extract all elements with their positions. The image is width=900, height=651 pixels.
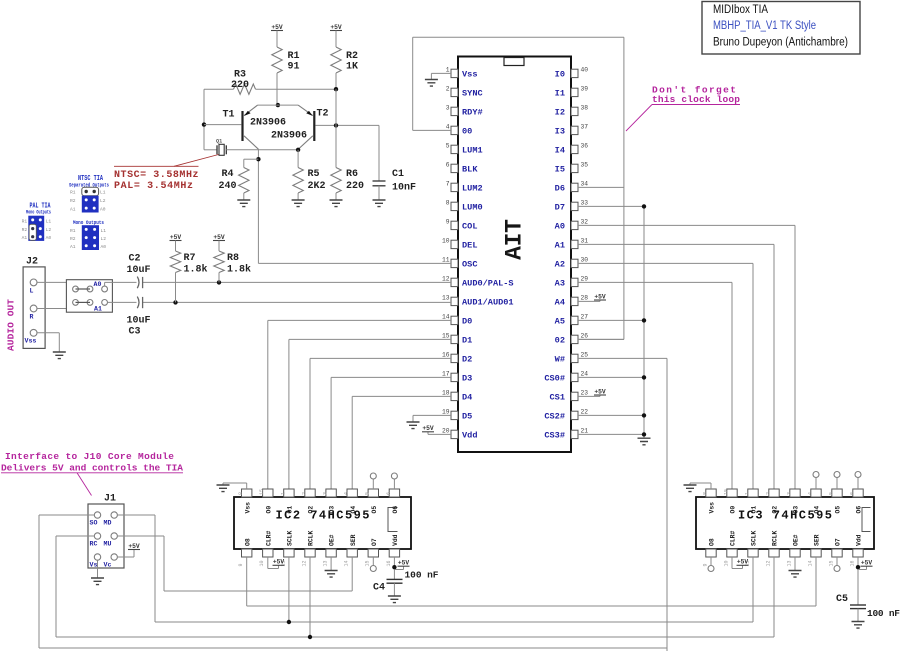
resistor R3 <box>234 84 256 94</box>
svg-text:10: 10 <box>442 238 450 245</box>
svg-text:1.8k: 1.8k <box>184 264 208 276</box>
node IC2 Vdd <box>392 565 396 569</box>
svg-text:A1: A1 <box>70 244 76 250</box>
svg-text:2N3906: 2N3906 <box>271 131 307 142</box>
wire T1 collector down <box>257 149 259 263</box>
wire IC2 SCLK <box>288 557 290 622</box>
svg-text:J1: J1 <box>104 494 116 505</box>
svg-text:O1: O1 <box>751 506 758 514</box>
svg-text:24: 24 <box>581 371 589 378</box>
svg-text:D2: D2 <box>462 355 472 365</box>
svg-text:L2: L2 <box>46 227 52 233</box>
svg-text:9: 9 <box>238 563 244 566</box>
IC3 O6 open <box>857 478 859 490</box>
resistor R6 <box>331 168 341 194</box>
node R7 on AUD1 <box>173 300 177 304</box>
TIA pin 13 AUD1/AUD01 <box>451 297 458 305</box>
TIA pin 30 A2 <box>571 259 578 267</box>
node shared emitters <box>276 103 280 107</box>
wire J1 Vs ground <box>97 560 99 577</box>
connector J1 <box>88 504 124 568</box>
node CS2# gnd <box>642 413 646 417</box>
svg-text:MD: MD <box>104 520 112 527</box>
svg-text:SO: SO <box>90 520 98 527</box>
wire IC2 RCLK <box>309 557 311 637</box>
svg-text:R6: R6 <box>346 169 358 180</box>
wire A5 pin27 <box>578 319 644 321</box>
IC3 pin 13 OE# <box>790 549 800 557</box>
TIA pin 8 LUM0 <box>451 202 458 210</box>
resistor R5 <box>297 150 299 168</box>
resistor R1 <box>272 47 282 73</box>
TIA pin 39 I1 <box>571 88 578 96</box>
svg-text:4: 4 <box>446 124 450 131</box>
IC2 pin 15 O7 <box>368 549 378 557</box>
svg-text:SER: SER <box>814 534 821 546</box>
svg-text:D3: D3 <box>462 374 472 384</box>
svg-text:10: 10 <box>259 560 265 566</box>
TIA pin 16 D2 <box>451 354 458 362</box>
TIA pin 7 LUM2 <box>451 183 458 191</box>
wire pin1 Vss to ground <box>431 72 451 74</box>
wire J1 RC latch <box>56 535 94 537</box>
ground R5 <box>297 193 299 200</box>
TIA pin 22 CS2# <box>571 411 578 419</box>
IC3 pin 15 O0 <box>727 489 737 497</box>
svg-text:D0: D0 <box>462 317 472 327</box>
svg-text:Delivers 5V and controls the T: Delivers 5V and controls the TIA <box>1 463 183 474</box>
svg-text:2: 2 <box>765 492 771 495</box>
svg-text:CLR#: CLR# <box>730 530 737 546</box>
svg-text:Vss: Vss <box>244 502 251 514</box>
svg-text:CS0#: CS0# <box>544 374 565 384</box>
svg-text:A1: A1 <box>22 235 28 241</box>
IC3 74HC595 body <box>696 497 874 549</box>
wire R3 to R2 node <box>256 88 337 90</box>
node IC3 Vdd <box>856 565 860 569</box>
IC2 pin 15 O0 <box>263 489 273 497</box>
wire CS2# pin22 <box>578 414 644 416</box>
svg-text:CS3#: CS3# <box>544 431 565 441</box>
svg-text:13: 13 <box>786 560 792 566</box>
TIA pin 25 W# <box>571 354 578 362</box>
IC2 O5 open <box>372 479 374 489</box>
svg-text:O5: O5 <box>371 506 378 514</box>
svg-text:8: 8 <box>238 492 244 495</box>
svg-text:C4: C4 <box>373 583 385 594</box>
svg-text:D7: D7 <box>555 203 565 213</box>
svg-text:T2: T2 <box>317 109 329 120</box>
svg-text:17: 17 <box>442 371 450 378</box>
svg-text:10uF: 10uF <box>127 316 151 327</box>
svg-text:10: 10 <box>723 560 729 566</box>
svg-text:+5V: +5V <box>213 234 225 241</box>
svg-text:1: 1 <box>744 492 750 495</box>
svg-text:2K2: 2K2 <box>308 181 326 192</box>
TIA chip U1 body <box>458 57 571 453</box>
svg-text:O6: O6 <box>856 506 863 514</box>
svg-text:L: L <box>30 288 34 295</box>
wire J1 MU to IC2 SER <box>117 535 164 537</box>
ground C4 <box>393 583 395 595</box>
svg-text:6: 6 <box>446 162 450 169</box>
svg-text:10nF: 10nF <box>392 183 416 194</box>
wire D2 pin16 <box>310 357 451 359</box>
svg-text:13: 13 <box>323 560 329 566</box>
svg-text:CS1: CS1 <box>550 393 565 403</box>
jumper PAL mono <box>28 216 44 241</box>
wire R4 branch <box>244 158 259 160</box>
svg-text:A5: A5 <box>555 317 565 327</box>
IC3 pin 1 O1 <box>748 489 758 497</box>
svg-text:+5V: +5V <box>330 24 342 31</box>
svg-text:Bruno Dupeyon (Antichambre): Bruno Dupeyon (Antichambre) <box>713 37 848 49</box>
svg-text:MBHP_TIA_V1 TK Style: MBHP_TIA_V1 TK Style <box>713 20 816 32</box>
svg-text:18: 18 <box>442 390 450 397</box>
audio jumper block <box>66 280 112 313</box>
wire IC2 O8 cascade to IC3 SER <box>246 557 248 606</box>
IC2 O7 open <box>372 557 374 566</box>
svg-text:O2: O2 <box>308 506 315 514</box>
node IC2 SCLK <box>287 620 291 624</box>
svg-text:3: 3 <box>786 492 792 495</box>
ground C5 <box>857 609 859 621</box>
svg-text:R2: R2 <box>346 51 358 62</box>
svg-text:5: 5 <box>446 143 450 150</box>
svg-text:T1: T1 <box>223 110 235 121</box>
svg-text:6: 6 <box>849 492 855 495</box>
TIA pin 19 D5 <box>451 411 458 419</box>
svg-text:11: 11 <box>442 257 450 264</box>
TIA pin 27 A5 <box>571 316 578 324</box>
svg-text:RDY#: RDY# <box>462 108 483 118</box>
capacitor C4 <box>387 578 403 580</box>
TIA pin 6 BLK <box>451 164 458 172</box>
IC3 O8 open <box>710 557 712 566</box>
TIA pin 36 I4 <box>571 145 578 153</box>
IC3 pin 2 O2 <box>769 489 779 497</box>
svg-text:OE#: OE# <box>329 534 336 546</box>
TIA pin 21 CS3# <box>571 430 578 438</box>
svg-text:25: 25 <box>581 352 589 359</box>
IC3 pin 10 CLR# <box>727 549 737 557</box>
wire AUD1 pin13 <box>143 301 451 303</box>
TIA pin 4 00 <box>451 126 458 134</box>
svg-text:NTSC= 3.58MHz: NTSC= 3.58MHz <box>114 170 199 181</box>
wire T1 base <box>204 124 241 126</box>
wire clock loop pin4 <box>413 129 451 131</box>
svg-text:C1: C1 <box>392 169 404 180</box>
IC3 pin 15 O7 <box>832 549 842 557</box>
svg-text:240: 240 <box>219 181 237 192</box>
svg-text:27: 27 <box>581 314 589 321</box>
IC3 pin 12 RCLK <box>769 549 779 557</box>
wire IC3 Vdd to C5 <box>857 557 859 605</box>
svg-text:12: 12 <box>442 276 450 283</box>
svg-text:2: 2 <box>446 86 450 93</box>
svg-text:22: 22 <box>581 409 589 416</box>
svg-text:2N3906: 2N3906 <box>250 118 286 129</box>
TIA pin 31 A1 <box>571 240 578 248</box>
svg-text:C2: C2 <box>129 254 141 265</box>
svg-text:16: 16 <box>386 560 392 566</box>
IC3 Vdd +5V <box>858 569 867 571</box>
IC2 pin 14 SER <box>347 549 357 557</box>
IC2 pin 10 CLR# <box>263 549 273 557</box>
wire D0 pin14 <box>268 319 451 321</box>
svg-text:35: 35 <box>581 162 589 169</box>
wire R2 lead <box>335 73 337 89</box>
wire J2 Vss to ground <box>37 332 59 334</box>
svg-text:O7: O7 <box>835 538 842 546</box>
wire J1 MD shift clock <box>117 514 155 516</box>
svg-text:L2: L2 <box>100 198 106 204</box>
ground CS bus <box>638 438 651 445</box>
svg-text:23: 23 <box>581 390 589 397</box>
wire A3 pin29 <box>578 281 732 283</box>
capacitor C2 <box>137 277 139 289</box>
wire A0 pin32 <box>578 224 795 226</box>
wire D1 pin15 <box>289 338 451 340</box>
svg-text:R4: R4 <box>222 169 234 180</box>
IC2 pin 8 Vss <box>242 489 252 497</box>
IC3 pin 3 O3 <box>790 489 800 497</box>
svg-text:33: 33 <box>581 200 589 207</box>
svg-text:A2: A2 <box>555 260 565 270</box>
svg-text:+5V: +5V <box>398 560 410 567</box>
IC2 O6 open <box>393 479 395 489</box>
TIA pin 35 I5 <box>571 164 578 172</box>
svg-text:SYNC: SYNC <box>462 89 483 99</box>
svg-text:Vs: Vs <box>90 562 98 569</box>
svg-text:R1: R1 <box>288 51 300 62</box>
svg-text:this clock loop: this clock loop <box>652 94 740 105</box>
svg-text:A1: A1 <box>555 241 565 251</box>
wire block to C2 <box>105 281 137 283</box>
svg-text:31: 31 <box>581 238 589 245</box>
svg-text:O6: O6 <box>392 506 399 514</box>
svg-text:14: 14 <box>344 560 350 566</box>
IC3 pin 14 SER <box>811 549 821 557</box>
wire R2 node to R6 <box>335 89 337 167</box>
svg-text:R: R <box>30 314 34 321</box>
TIA pin 18 D4 <box>451 392 458 400</box>
svg-text:Q1: Q1 <box>216 139 222 145</box>
TIA pin 38 I2 <box>571 107 578 115</box>
svg-text:O4: O4 <box>814 506 821 514</box>
wire R1 to emitters <box>276 73 278 105</box>
ground pin1 <box>425 80 438 87</box>
svg-text:1: 1 <box>280 492 286 495</box>
svg-text:I5: I5 <box>555 165 565 175</box>
capacitor C1 <box>378 125 380 181</box>
wire CS3# pin21 <box>578 433 644 435</box>
svg-text:D6: D6 <box>555 184 565 194</box>
svg-text:O8: O8 <box>709 538 716 546</box>
jumper NTSC separated <box>82 187 99 195</box>
svg-text:+5V: +5V <box>737 559 749 566</box>
node D7 gnd <box>642 204 646 208</box>
svg-text:5: 5 <box>828 492 834 495</box>
wire left feedback vertical <box>203 89 205 150</box>
node R4 tap <box>256 157 260 161</box>
svg-text:D4: D4 <box>462 393 472 403</box>
wire block to C3 <box>108 301 137 303</box>
svg-text:100 nF: 100 nF <box>867 608 900 619</box>
svg-text:15: 15 <box>365 560 371 566</box>
svg-text:4: 4 <box>344 492 350 495</box>
IC2 pin 2 O2 <box>305 489 315 497</box>
svg-text:O3: O3 <box>329 506 336 514</box>
svg-text:15: 15 <box>723 489 729 495</box>
svg-text:+5V: +5V <box>273 559 285 566</box>
svg-text:40: 40 <box>581 67 589 74</box>
svg-text:D1: D1 <box>462 336 472 346</box>
svg-text:8: 8 <box>446 200 450 207</box>
svg-text:3: 3 <box>446 105 450 112</box>
TIA chip notch <box>504 58 524 66</box>
ground R6 <box>335 193 337 200</box>
svg-text:32: 32 <box>581 219 589 226</box>
title block <box>702 2 860 55</box>
IC2 pin 9 O8 <box>242 549 252 557</box>
wire D4 pin18 <box>352 395 451 397</box>
wire IC2 Vss ground <box>246 483 248 489</box>
svg-text:O0: O0 <box>730 506 737 514</box>
IC3 O5 open <box>836 478 838 490</box>
TIA pin 2 SYNC <box>451 88 458 96</box>
wire J1 Vc +5V <box>117 556 134 558</box>
svg-text:Vss: Vss <box>462 70 477 80</box>
svg-text:RCLK: RCLK <box>772 530 779 546</box>
svg-text:+5V: +5V <box>170 234 182 241</box>
IC2 pin 3 O3 <box>326 489 336 497</box>
IC3 CLR# +5V <box>731 557 733 569</box>
svg-text:PAL= 3.54MHz: PAL= 3.54MHz <box>114 181 193 192</box>
svg-text:A: A <box>502 246 528 260</box>
svg-text:R7: R7 <box>184 253 196 264</box>
wire D3 pin17 <box>331 376 451 378</box>
resistor R8 <box>214 251 224 273</box>
wire IC3 RCLK <box>773 557 775 637</box>
TIA pin 3 RDY# <box>451 107 458 115</box>
svg-text:D5: D5 <box>462 412 472 422</box>
TIA pin 9 COL <box>451 221 458 229</box>
wire D5 pin19 to ground <box>413 414 451 416</box>
svg-text:I3: I3 <box>555 127 565 137</box>
svg-text:28: 28 <box>581 295 589 302</box>
node R2-R3 <box>334 87 338 91</box>
svg-text:A1: A1 <box>70 207 76 213</box>
wire W# pin25 <box>578 357 667 359</box>
wire IC2 SER <box>351 557 353 591</box>
node T1 base <box>202 122 206 126</box>
node A5 gnd <box>642 318 646 322</box>
wire R8 to AUD0 <box>218 273 220 283</box>
TIA pin 5 LUM1 <box>451 145 458 153</box>
svg-text:COL: COL <box>462 222 477 232</box>
svg-text:1K: 1K <box>346 62 358 73</box>
svg-text:+5V: +5V <box>128 543 140 550</box>
svg-text:O5: O5 <box>835 506 842 514</box>
svg-text:26: 26 <box>581 333 589 340</box>
svg-text:AUD1/AUD01: AUD1/AUD01 <box>462 298 514 308</box>
svg-text:02: 02 <box>555 336 565 346</box>
wire Vdd pin20 +5V <box>428 433 451 435</box>
wire A4 pin28 +5V <box>578 300 600 302</box>
ground J2 <box>53 352 66 359</box>
svg-text:A0: A0 <box>46 235 52 241</box>
svg-text:7: 7 <box>446 181 450 188</box>
wire A2 pin30 <box>578 262 753 264</box>
TIA pin 37 I3 <box>571 126 578 134</box>
svg-text:Mono Outputs: Mono Outputs <box>73 219 104 226</box>
IC2 pin 1 O1 <box>284 489 294 497</box>
crystal Q1 <box>204 149 217 151</box>
TIA pin 33 D7 <box>571 202 578 210</box>
svg-text:AUD0/PAL-S: AUD0/PAL-S <box>462 279 514 289</box>
TIA pin 14 D0 <box>451 316 458 324</box>
svg-text:MIDIbox TIA: MIDIbox TIA <box>713 4 768 16</box>
svg-text:I0: I0 <box>555 70 565 80</box>
wire OSC pin11 <box>258 262 451 264</box>
ground pin19 <box>407 422 420 429</box>
IC2 pin 4 O4 <box>347 489 357 497</box>
IC2 pin 13 OE# <box>326 549 336 557</box>
svg-text:12: 12 <box>765 560 771 566</box>
ground R4 <box>243 193 245 200</box>
svg-text:LUM1: LUM1 <box>462 146 483 156</box>
resistor R2 <box>331 47 341 73</box>
resistor R4 <box>239 168 249 194</box>
resistor R7 <box>170 251 180 273</box>
svg-text:R2: R2 <box>22 227 28 233</box>
svg-text:W#: W# <box>555 355 565 365</box>
svg-text:A0: A0 <box>94 281 102 288</box>
wire J2 L <box>37 281 77 283</box>
TIA pin 12 AUD0/PAL-S <box>451 278 458 286</box>
svg-text:15: 15 <box>442 333 450 340</box>
ground C1 <box>378 186 380 200</box>
svg-text:14: 14 <box>807 560 813 566</box>
svg-text:A0: A0 <box>100 207 106 213</box>
svg-text:R1: R1 <box>70 228 76 234</box>
svg-text:10uF: 10uF <box>127 265 151 276</box>
svg-text:R1: R1 <box>22 218 28 224</box>
IC3 pin 16 Vdd <box>853 549 863 557</box>
wire base rail <box>204 88 234 90</box>
svg-text:Interface to J10 Core Module: Interface to J10 Core Module <box>5 451 174 462</box>
transistor T1 2N3906 <box>241 111 243 141</box>
wire CS0# pin24 <box>578 376 644 378</box>
svg-text:1: 1 <box>446 67 450 74</box>
IC2 pin 11 SCLK <box>284 549 294 557</box>
ground bus vertical right <box>643 206 645 437</box>
node IC2 RCLK <box>308 635 312 639</box>
TIA pin 24 CS0# <box>571 373 578 381</box>
svg-text:3: 3 <box>323 492 329 495</box>
svg-text:O1: O1 <box>287 506 294 514</box>
svg-text:13: 13 <box>442 295 450 302</box>
svg-text:OSC: OSC <box>462 260 477 270</box>
IC2 CLR# +5V <box>267 557 269 569</box>
IC3 pin 6 O6 <box>853 489 863 497</box>
jumper NTSC mono <box>82 225 99 250</box>
TIA pin 17 D3 <box>451 373 458 381</box>
IC2 pin 16 Vdd <box>389 549 399 557</box>
svg-text:220: 220 <box>231 80 249 91</box>
svg-text:+5V: +5V <box>594 293 606 300</box>
